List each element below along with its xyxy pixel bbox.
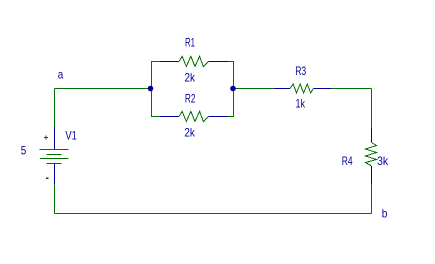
- wire parallel box left vertical: [151, 61, 153, 117]
- resistor R4 zigzag: [366, 143, 377, 167]
- svg-text:R2: R2: [185, 92, 196, 106]
- battery V1 minus sign: [46, 178, 49, 180]
- wire bottom horizontal: [55, 213, 372, 215]
- resistor R3 left lead: [274, 88, 290, 90]
- resistor R3 zigzag: [290, 84, 313, 93]
- wire R4 to bottom-right corner node b: [371, 185, 373, 214]
- svg-text:b: b: [382, 207, 388, 221]
- battery V1 bottom lead: [54, 164, 56, 185]
- resistor R2 zigzag: [179, 111, 208, 121]
- battery V1 plate 1 long: [40, 149, 69, 151]
- svg-text:2k: 2k: [185, 71, 196, 85]
- wire left vertical from V1 bottom to bottom wire: [54, 185, 56, 214]
- wire top branch left stub: [152, 61, 161, 63]
- resistor R1 left lead: [160, 61, 179, 63]
- wire R3 to top-right corner: [331, 88, 372, 90]
- svg-text:1k: 1k: [296, 97, 306, 111]
- battery V1 plate 2 short: [47, 154, 62, 156]
- battery V1 plate 4 short: [47, 163, 62, 165]
- wire bottom branch left stub: [152, 116, 161, 118]
- svg-text:2k: 2k: [184, 126, 195, 140]
- svg-text:R3: R3: [295, 64, 306, 78]
- wire bottom branch right stub: [228, 116, 234, 118]
- wire top branch right stub: [228, 61, 234, 63]
- resistor R2 left lead: [160, 116, 179, 118]
- svg-text:3k: 3k: [377, 154, 389, 168]
- battery V1 plate 3 long: [40, 158, 69, 160]
- svg-text:R4: R4: [342, 154, 353, 168]
- wire parallel box right vertical: [233, 61, 235, 117]
- wire left vertical from node a down to V1 top: [54, 89, 56, 128]
- wire right dot to R3: [234, 88, 275, 90]
- svg-text:R1: R1: [185, 36, 195, 50]
- svg-text:a: a: [58, 68, 64, 82]
- svg-text:V1: V1: [65, 129, 77, 143]
- junction dot right node: [230, 86, 236, 92]
- resistor R3 right lead: [313, 88, 331, 90]
- battery V1 top lead: [54, 127, 56, 150]
- resistor R1 zigzag: [179, 56, 208, 66]
- resistor R1 right lead: [208, 61, 228, 63]
- junction dot left node: [148, 86, 154, 92]
- resistor R4 bottom lead: [371, 166, 373, 185]
- svg-text:5: 5: [21, 144, 27, 158]
- resistor R2 right lead: [208, 116, 228, 118]
- wire node a horizontal to parallel network: [55, 88, 152, 90]
- wire right vertical down to R4: [371, 89, 373, 129]
- battery V1 plus sign: [44, 136, 48, 140]
- resistor R4 top lead: [371, 128, 373, 143]
